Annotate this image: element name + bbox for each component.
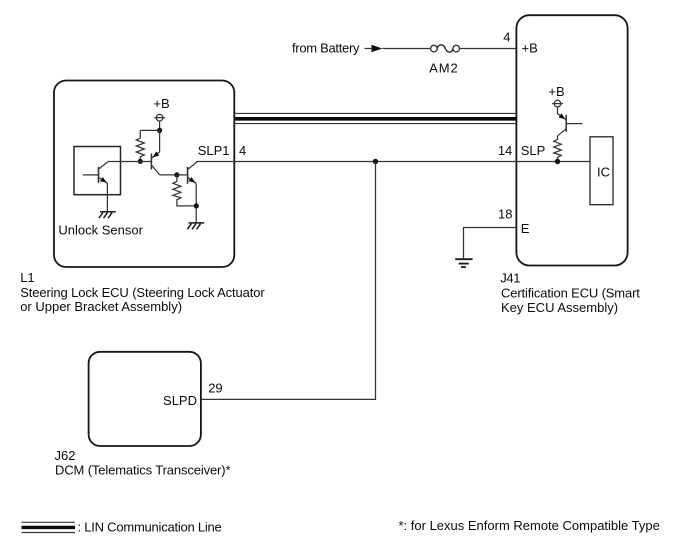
- svg-text:SLP: SLP: [521, 143, 546, 158]
- svg-text:SLPD: SLPD: [163, 393, 197, 408]
- wire: Q2 emitter down to ground: [195, 183, 197, 223]
- legend LIN symbol (triple line): [22, 522, 76, 532]
- ground chassis symbol below Q2: [187, 223, 204, 229]
- svg-text:J62: J62: [55, 448, 76, 463]
- svg-text:or Upper Bracket Assembly): or Upper Bracket Assembly): [20, 299, 182, 314]
- node Q2 emitter / R2 junction: [194, 203, 199, 208]
- power +B terminal circle (L1 box): [154, 114, 165, 121]
- transistor Q3 (PNP, J41 box): [558, 107, 583, 136]
- node top junction L1: [157, 128, 162, 133]
- svg-text:SLP1: SLP1: [198, 143, 230, 158]
- transistor Q1 (PNP): [151, 130, 159, 175]
- wire: +B to top node (L1): [159, 121, 161, 130]
- power +B terminal circle (J41 box): [552, 100, 563, 107]
- resistor R1: [136, 130, 144, 161]
- svg-text:14: 14: [498, 143, 512, 158]
- wire: SLP1/SLP main line Q2 collector to IC: [196, 161, 590, 163]
- phototransistor inside Unlock Sensor: [83, 162, 108, 183]
- ground earth symbol at E pin: [455, 259, 472, 267]
- svg-text:Key ECU Assembly): Key ECU Assembly): [501, 300, 618, 315]
- wire: SLPD pin 29 to SLP line: [201, 162, 376, 400]
- svg-text:4: 4: [239, 143, 246, 158]
- box L1 Steering Lock ECU: [54, 81, 234, 268]
- svg-text:+B: +B: [153, 96, 169, 111]
- box IC U1: [590, 137, 613, 205]
- wire: top node to resistor R1 top: [140, 129, 159, 131]
- svg-text:from Battery: from Battery: [292, 40, 360, 55]
- wire: Q1 emitter to R2/Q2 base node: [160, 174, 177, 176]
- arrow from Battery: [372, 45, 383, 53]
- svg-text:E: E: [521, 221, 530, 236]
- wire: E pin 18 to earth ground: [464, 228, 517, 259]
- fuse AM2: [431, 45, 460, 52]
- svg-text:18: 18: [498, 207, 512, 222]
- svg-text:4: 4: [503, 30, 510, 45]
- svg-text:: LIN Communication Line: : LIN Communication Line: [78, 519, 222, 534]
- node SLP junction (J41): [555, 159, 560, 164]
- svg-text:AM2: AM2: [429, 60, 458, 75]
- resistor R3 (J41 box): [554, 136, 561, 162]
- svg-text:IC: IC: [597, 165, 610, 180]
- box Unlock Sensor: [74, 147, 121, 195]
- box J41 Certification ECU: [516, 15, 627, 265]
- wire: sensor emitter down to ground: [106, 183, 108, 212]
- node R2/Q2 base junction: [174, 172, 179, 177]
- box J62 DCM: [89, 352, 201, 446]
- node junction on SLP line to DCM: [373, 159, 378, 164]
- wire: AM2 to +B pin 4: [460, 48, 517, 50]
- wire: sensor collector to Q1 base bar: [108, 161, 152, 163]
- svg-text:Certification ECU (Smart: Certification ECU (Smart: [501, 286, 640, 301]
- svg-text:Unlock Sensor: Unlock Sensor: [58, 222, 143, 237]
- transistor Q2 (NPN): [177, 162, 196, 184]
- svg-text:*: for Lexus Enform Remote Com: *: for Lexus Enform Remote Compatible Ty…: [399, 518, 660, 533]
- svg-text:+B: +B: [548, 84, 564, 99]
- svg-text:DCM (Telematics Transceiver)*: DCM (Telematics Transceiver)*: [55, 463, 230, 478]
- LIN communication line (triple) between L1 and J41: [234, 113, 516, 123]
- svg-text:Steering Lock ECU (Steering Lo: Steering Lock ECU (Steering Lock Actuato…: [20, 285, 265, 300]
- svg-text:29: 29: [208, 381, 222, 396]
- ground chassis symbol below sensor: [99, 212, 116, 218]
- resistor R2: [173, 175, 196, 206]
- svg-text:J41: J41: [500, 271, 520, 286]
- svg-text:+B: +B: [522, 40, 538, 55]
- wire: battery feed to AM2: [365, 48, 431, 50]
- svg-text:L1: L1: [20, 270, 34, 285]
- node Q1 base junction: [138, 159, 143, 164]
